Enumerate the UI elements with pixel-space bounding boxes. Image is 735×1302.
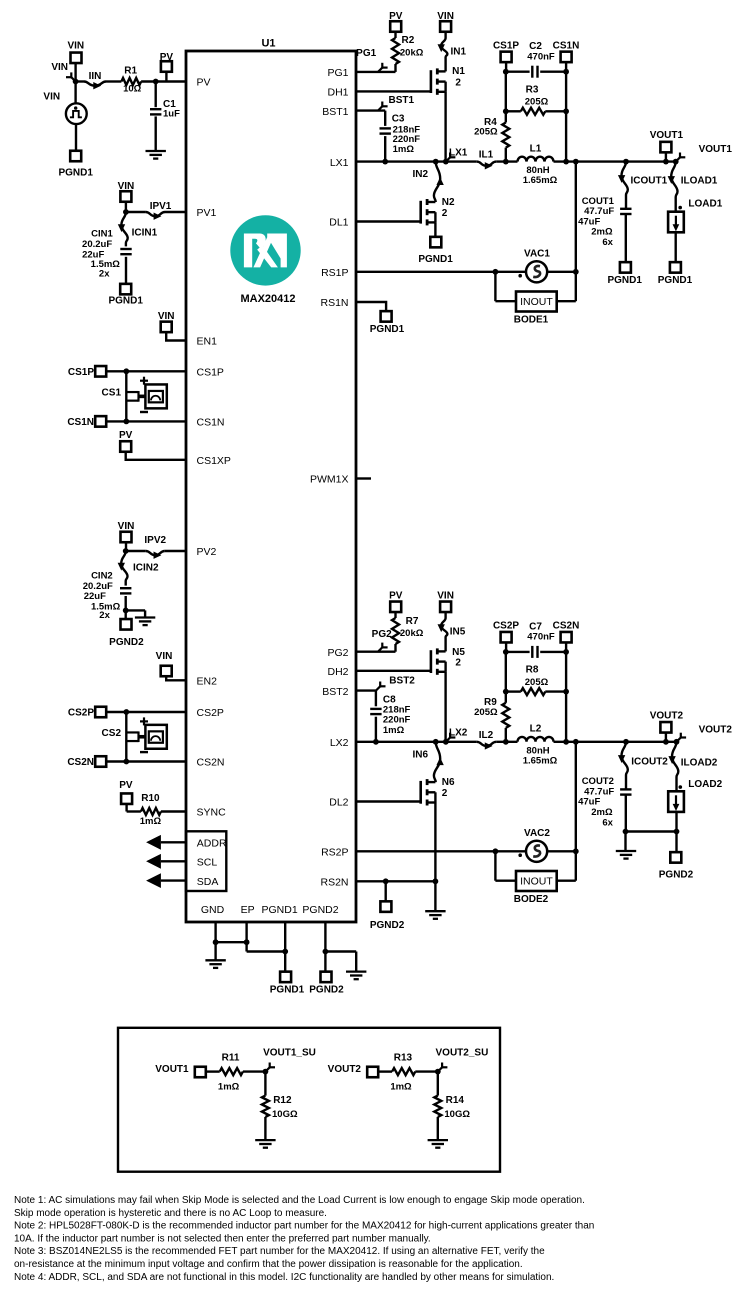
svg-text:2: 2 <box>442 208 448 219</box>
svg-text:IPV2: IPV2 <box>144 535 166 546</box>
svg-text:INOUT: INOUT <box>520 876 553 888</box>
svg-text:CS2P: CS2P <box>493 621 519 632</box>
svg-text:BST1: BST1 <box>389 95 415 106</box>
svg-text:L2: L2 <box>530 724 542 735</box>
svg-text:PGND1: PGND1 <box>270 984 305 995</box>
svg-text:IPV1: IPV1 <box>150 201 172 212</box>
svg-text:ICIN2: ICIN2 <box>133 563 159 574</box>
svg-text:N6: N6 <box>442 777 455 788</box>
svg-text:ILOAD1: ILOAD1 <box>681 176 718 187</box>
svg-text:1.65mΩ: 1.65mΩ <box>523 175 558 186</box>
svg-text:IN6: IN6 <box>412 749 428 760</box>
svg-text:VOUT2: VOUT2 <box>650 710 684 721</box>
svg-text:ICOUT1: ICOUT1 <box>631 176 668 187</box>
svg-text:LX1: LX1 <box>330 157 349 169</box>
svg-text:LX2: LX2 <box>449 728 468 739</box>
svg-text:ADDR: ADDR <box>197 838 227 850</box>
svg-text:PV: PV <box>160 52 174 63</box>
svg-text:EP: EP <box>241 904 255 916</box>
svg-text:LOAD2: LOAD2 <box>688 779 722 790</box>
svg-text:BODE1: BODE1 <box>514 315 549 326</box>
svg-text:1mΩ: 1mΩ <box>383 725 405 736</box>
svg-text:VOUT2: VOUT2 <box>699 724 733 735</box>
svg-text:ILOAD2: ILOAD2 <box>681 758 718 769</box>
svg-text:6x: 6x <box>602 817 613 828</box>
svg-text:PGND2: PGND2 <box>109 637 144 648</box>
svg-text:CS2N: CS2N <box>67 757 94 768</box>
svg-text:VIN: VIN <box>51 62 68 73</box>
svg-text:BST1: BST1 <box>322 106 348 118</box>
svg-text:PV1: PV1 <box>197 207 217 219</box>
svg-text:CS1N: CS1N <box>553 40 580 51</box>
svg-text:N1: N1 <box>452 66 465 77</box>
svg-text:INOUT: INOUT <box>520 296 553 308</box>
svg-text:1mΩ: 1mΩ <box>218 1082 240 1093</box>
svg-text:PG2: PG2 <box>327 647 348 659</box>
svg-text:BODE2: BODE2 <box>514 894 549 905</box>
svg-text:CS1XP: CS1XP <box>197 455 231 467</box>
svg-text:R11: R11 <box>222 1052 240 1063</box>
svg-text:L1: L1 <box>530 143 542 154</box>
svg-text:220nF: 220nF <box>383 714 411 725</box>
svg-text:RS1P: RS1P <box>321 267 348 279</box>
svg-text:2: 2 <box>442 788 448 799</box>
svg-text:R1: R1 <box>124 65 137 76</box>
svg-text:VOUT1: VOUT1 <box>155 1064 189 1075</box>
svg-text:VIN: VIN <box>118 181 135 192</box>
svg-text:Skip mode operation is hystere: Skip mode operation is hysteretic and th… <box>14 1208 327 1219</box>
svg-text:1mΩ: 1mΩ <box>140 816 162 827</box>
svg-text:VIN: VIN <box>43 92 60 103</box>
svg-text:VIN: VIN <box>156 651 173 662</box>
svg-text:SCL: SCL <box>197 857 218 869</box>
svg-text:6x: 6x <box>602 237 613 248</box>
svg-text:RS2N: RS2N <box>320 877 348 889</box>
svg-text:PWM1X: PWM1X <box>310 474 349 486</box>
svg-text:1uF: 1uF <box>163 109 180 120</box>
svg-text:VOUT1: VOUT1 <box>699 144 733 155</box>
svg-text:VIN: VIN <box>437 591 454 602</box>
svg-text:Note 2: HPL5028FT-080K-D is th: Note 2: HPL5028FT-080K-D is the recommen… <box>14 1221 594 1232</box>
svg-text:LOAD1: LOAD1 <box>688 199 722 210</box>
svg-text:R8: R8 <box>526 665 539 676</box>
svg-text:20kΩ: 20kΩ <box>400 628 424 639</box>
svg-text:DH1: DH1 <box>327 87 348 99</box>
svg-text:VOUT1: VOUT1 <box>650 130 684 141</box>
svg-text:N5: N5 <box>452 647 465 658</box>
svg-text:PGND1: PGND1 <box>58 168 93 179</box>
svg-text:PGND1: PGND1 <box>108 296 143 307</box>
svg-text:PV: PV <box>119 780 133 791</box>
svg-text:470nF: 470nF <box>527 51 555 62</box>
svg-text:EN1: EN1 <box>197 336 218 348</box>
svg-text:205Ω: 205Ω <box>525 677 549 688</box>
svg-text:2x: 2x <box>99 269 110 280</box>
svg-text:GND: GND <box>201 904 225 916</box>
svg-text:BST2: BST2 <box>389 675 415 686</box>
svg-text:20kΩ: 20kΩ <box>400 47 424 58</box>
svg-text:2: 2 <box>455 658 461 669</box>
svg-text:VIN: VIN <box>118 521 135 532</box>
svg-text:1.65mΩ: 1.65mΩ <box>523 755 558 766</box>
svg-text:VOUT2: VOUT2 <box>328 1064 362 1075</box>
svg-text:R10: R10 <box>141 793 160 804</box>
svg-text:PV: PV <box>119 430 133 441</box>
svg-text:N2: N2 <box>442 197 455 208</box>
svg-text:CS1N: CS1N <box>67 417 94 428</box>
svg-text:IN1: IN1 <box>451 47 467 58</box>
svg-text:CS1P: CS1P <box>68 367 94 378</box>
svg-text:VOUT1_SU: VOUT1_SU <box>263 1047 316 1058</box>
svg-text:R2: R2 <box>402 35 415 46</box>
svg-text:PG1: PG1 <box>327 67 348 79</box>
svg-text:IN5: IN5 <box>450 626 466 637</box>
svg-text:10A. If the inductor part numb: 10A. If the inductor part number is not … <box>14 1233 431 1244</box>
svg-text:RS2P: RS2P <box>321 847 348 859</box>
svg-text:DL2: DL2 <box>329 797 348 809</box>
svg-text:C3: C3 <box>392 114 405 125</box>
svg-text:LX2: LX2 <box>330 737 349 749</box>
svg-text:PV2: PV2 <box>197 546 217 558</box>
svg-text:R3: R3 <box>526 84 539 95</box>
svg-text:1mΩ: 1mΩ <box>393 144 415 155</box>
svg-text:PGND1: PGND1 <box>658 275 693 286</box>
svg-text:PG1: PG1 <box>356 48 376 59</box>
svg-text:CS2: CS2 <box>102 728 122 739</box>
svg-text:PV: PV <box>389 591 403 602</box>
svg-text:10GΩ: 10GΩ <box>444 1109 470 1120</box>
svg-text:Note 1: AC simulations may fai: Note 1: AC simulations may fail when Ski… <box>14 1195 585 1206</box>
svg-text:VOUT2_SU: VOUT2_SU <box>436 1047 489 1058</box>
svg-text:ICIN1: ICIN1 <box>132 227 158 238</box>
svg-text:PGND2: PGND2 <box>309 984 344 995</box>
svg-text:R13: R13 <box>394 1052 413 1063</box>
svg-text:R7: R7 <box>406 616 419 627</box>
svg-text:BST2: BST2 <box>322 686 348 698</box>
svg-text:CS1N: CS1N <box>197 417 225 429</box>
svg-text:CS1P: CS1P <box>493 40 519 51</box>
svg-text:PV: PV <box>197 77 211 89</box>
svg-text:DH2: DH2 <box>327 666 348 678</box>
svg-text:R12: R12 <box>273 1095 292 1106</box>
svg-text:IN2: IN2 <box>412 169 428 180</box>
svg-text:10GΩ: 10GΩ <box>272 1109 298 1120</box>
svg-text:PGND1: PGND1 <box>262 904 298 916</box>
svg-text:ICOUT2: ICOUT2 <box>631 757 668 768</box>
svg-text:2: 2 <box>455 78 461 89</box>
svg-text:205Ω: 205Ω <box>474 127 498 138</box>
svg-text:Note 3: BSZ014NE2LS5 is the re: Note 3: BSZ014NE2LS5 is the recommended … <box>14 1246 545 1257</box>
svg-text:VIN: VIN <box>158 311 175 322</box>
svg-text:2x: 2x <box>99 610 110 621</box>
svg-text:R14: R14 <box>446 1095 465 1106</box>
svg-text:Note 4: ADDR, SCL, and SDA are: Note 4: ADDR, SCL, and SDA are not funct… <box>14 1272 554 1283</box>
svg-text:10Ω: 10Ω <box>123 84 142 95</box>
svg-text:EN2: EN2 <box>197 676 218 688</box>
svg-text:IL1: IL1 <box>479 150 494 161</box>
svg-text:IL2: IL2 <box>479 730 494 741</box>
svg-text:U1: U1 <box>261 37 275 49</box>
svg-text:1mΩ: 1mΩ <box>390 1082 412 1093</box>
svg-text:RS1N: RS1N <box>320 297 348 309</box>
svg-text:LX1: LX1 <box>449 147 468 158</box>
svg-text:VIN: VIN <box>437 11 454 22</box>
svg-text:CS2P: CS2P <box>197 707 224 719</box>
svg-text:PGND2: PGND2 <box>370 920 405 931</box>
svg-text:CIN1: CIN1 <box>91 229 113 240</box>
svg-text:SDA: SDA <box>197 876 219 888</box>
svg-text:VAC1: VAC1 <box>524 249 550 260</box>
svg-text:CS1P: CS1P <box>197 367 224 379</box>
svg-text:IIN: IIN <box>89 71 102 82</box>
svg-text:PGND1: PGND1 <box>418 254 453 265</box>
svg-text:CS1: CS1 <box>102 388 122 399</box>
svg-text:PG2: PG2 <box>372 629 392 640</box>
svg-text:PGND2: PGND2 <box>659 869 694 880</box>
svg-text:CS2N: CS2N <box>553 621 580 632</box>
svg-text:MAX20412: MAX20412 <box>240 293 295 305</box>
svg-text:SYNC: SYNC <box>197 807 227 819</box>
svg-text:on-resistance at the minimum i: on-resistance at the minimum input volta… <box>14 1259 523 1270</box>
svg-text:PGND1: PGND1 <box>370 324 405 335</box>
svg-text:CS2P: CS2P <box>68 708 94 719</box>
svg-text:PV: PV <box>389 11 403 22</box>
svg-text:PGND2: PGND2 <box>302 904 338 916</box>
svg-text:PGND1: PGND1 <box>607 275 642 286</box>
svg-text:VIN: VIN <box>67 41 84 52</box>
svg-text:DL1: DL1 <box>329 217 348 229</box>
svg-text:205Ω: 205Ω <box>525 97 549 108</box>
svg-text:470nF: 470nF <box>527 632 555 643</box>
svg-text:205Ω: 205Ω <box>474 707 498 718</box>
svg-text:CS2N: CS2N <box>197 757 225 769</box>
svg-text:VAC2: VAC2 <box>524 828 550 839</box>
